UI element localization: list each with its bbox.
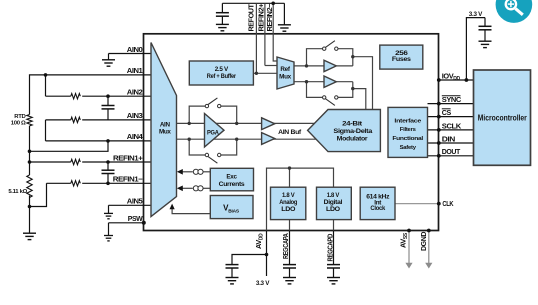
svg-text:DIN: DIN — [442, 134, 455, 143]
svg-text:Ref: Ref — [280, 66, 290, 73]
svg-text:Functional: Functional — [392, 136, 423, 142]
svg-text:REGCAPD: REGCAPD — [325, 233, 334, 261]
svg-text:REGCAPA: REGCAPA — [281, 233, 290, 259]
svg-text:AIN Buf: AIN Buf — [278, 129, 302, 136]
svg-text:REFIN2−: REFIN2− — [265, 3, 274, 32]
svg-text:Mux: Mux — [159, 129, 171, 136]
svg-text:Fuses: Fuses — [392, 56, 412, 63]
svg-text:Currents: Currents — [219, 181, 246, 188]
svg-text:REFIN1+: REFIN1+ — [113, 153, 144, 162]
svg-text:AIN: AIN — [160, 122, 171, 129]
svg-text:Sigma-Delta: Sigma-Delta — [333, 128, 372, 135]
svg-text:AIN1: AIN1 — [127, 66, 143, 75]
svg-text:CLK: CLK — [442, 199, 454, 208]
svg-text:Analog: Analog — [279, 199, 297, 206]
svg-text:Microcontroller: Microcontroller — [478, 114, 527, 123]
svg-text:Ref + Buffer: Ref + Buffer — [207, 73, 237, 80]
svg-text:DGND: DGND — [419, 231, 428, 251]
svg-text:SCLK: SCLK — [442, 121, 462, 130]
svg-text:REFOUT: REFOUT — [247, 4, 256, 32]
svg-text:Interface: Interface — [394, 118, 422, 124]
svg-text:AVDD: AVDD — [254, 233, 265, 249]
svg-text:AIN5: AIN5 — [127, 197, 143, 206]
svg-text:AVSS: AVSS — [399, 232, 410, 248]
svg-text:Exc: Exc — [226, 173, 237, 180]
svg-text:REFIN1−: REFIN1− — [113, 175, 144, 184]
svg-text:LDO: LDO — [281, 206, 295, 213]
svg-text:AIN3: AIN3 — [127, 111, 143, 120]
svg-text:Modulator: Modulator — [337, 135, 368, 142]
svg-text:AIN0: AIN0 — [127, 45, 143, 54]
svg-text:3.3 V: 3.3 V — [256, 280, 270, 287]
svg-text:SYNC: SYNC — [442, 95, 462, 104]
svg-text:AIN2: AIN2 — [127, 88, 143, 97]
svg-text:Digital: Digital — [324, 199, 343, 206]
svg-text:LDO: LDO — [326, 206, 340, 213]
svg-text:100 Ω: 100 Ω — [11, 121, 26, 127]
svg-text:RTD: RTD — [14, 114, 25, 120]
svg-text:24-Bit: 24-Bit — [342, 121, 363, 128]
svg-text:3.3 V: 3.3 V — [469, 11, 483, 18]
svg-text:5.11 kΩ: 5.11 kΩ — [8, 189, 27, 195]
svg-text:Filters: Filters — [400, 127, 417, 133]
svg-text:PSW: PSW — [128, 214, 143, 223]
svg-text:DOUT: DOUT — [442, 147, 461, 156]
svg-text:Safety: Safety — [400, 145, 417, 151]
svg-text:CS: CS — [442, 108, 451, 117]
svg-text:Mux: Mux — [279, 73, 291, 80]
svg-text:AIN4: AIN4 — [127, 132, 144, 141]
svg-text:Clock: Clock — [370, 205, 385, 212]
svg-text:PGA: PGA — [207, 129, 219, 136]
